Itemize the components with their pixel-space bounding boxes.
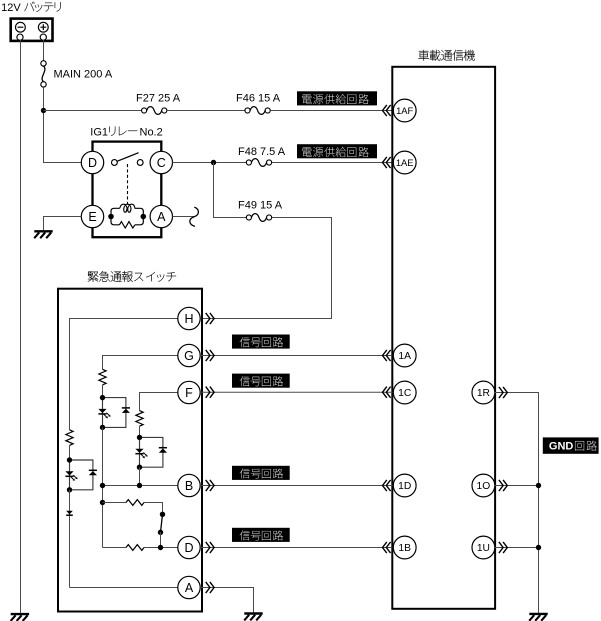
label signal circuit F-1C — [232, 374, 290, 388]
node ground bus / 1U — [536, 545, 541, 550]
wire resistor to LED block (F branch) — [139, 426, 141, 437]
fuse F27 25 A — [142, 107, 167, 115]
connector chevrons into 1AE — [383, 157, 391, 168]
wire G to 1A — [200, 355, 392, 357]
node switch bottom contact — [158, 530, 163, 535]
chevrons out of H row — [206, 313, 214, 324]
wire F46 to connector 1AF — [271, 110, 393, 112]
wire B row inside — [103, 485, 178, 487]
svg-text:GND: GND — [549, 441, 574, 453]
connector chevrons into 1AF — [383, 105, 391, 116]
switch terminal A — [178, 576, 200, 598]
wire G row inside — [103, 356, 178, 370]
svg-text:1C: 1C — [398, 388, 412, 399]
wire 1R to ground bus — [495, 393, 539, 613]
relay pin C — [150, 151, 172, 173]
wire H row inside — [70, 319, 178, 430]
svg-text:E: E — [88, 210, 96, 224]
svg-text:1U: 1U — [477, 543, 490, 554]
wire F branch to B row — [139, 467, 141, 485]
label emergency call switch — [88, 271, 176, 282]
resistor D loop bottom — [126, 545, 144, 551]
wire junction down to F49 — [214, 163, 247, 218]
wire D row bottom path — [103, 547, 178, 549]
label on-board communication device — [418, 50, 474, 61]
wire A to ground — [200, 588, 253, 613]
svg-text:1AE: 1AE — [396, 157, 414, 168]
wire relay C to junction and F48 — [173, 162, 247, 164]
node coil right — [141, 214, 147, 220]
label power supply circuit (second) — [297, 144, 377, 158]
relay switch blade — [117, 153, 138, 162]
wire battery positive to MAIN fusible link — [43, 40, 45, 61]
wire F48 to connector 1AE — [272, 162, 393, 164]
svg-text:G: G — [184, 349, 194, 363]
svg-text:IG1: IG1 — [90, 126, 108, 138]
node B/F junction — [137, 483, 142, 488]
wire B to 1D — [200, 485, 392, 487]
connector pin 1D — [393, 474, 416, 497]
svg-text:F27 25 A: F27 25 A — [136, 93, 181, 105]
connector pin 1B — [393, 536, 416, 559]
fuse F48 7.5 A — [246, 159, 271, 167]
svg-text:1A: 1A — [398, 351, 411, 362]
svg-text:H: H — [184, 312, 193, 326]
svg-text:A: A — [157, 210, 166, 224]
chevrons into 1D — [383, 480, 391, 491]
chevrons out of D — [206, 542, 214, 553]
relay pin E — [81, 205, 103, 227]
svg-text:12V: 12V — [1, 2, 21, 14]
wire 1U to ground bus — [495, 547, 539, 549]
relay box IG1 No.2 — [93, 142, 162, 238]
svg-text:1AF: 1AF — [396, 105, 413, 116]
wire break continuation mark — [190, 207, 199, 226]
chevrons into 1A — [383, 350, 391, 361]
svg-text:1O: 1O — [477, 481, 491, 492]
chevrons out of 1O — [499, 480, 507, 491]
wire relay A stub — [173, 216, 194, 218]
wire junction to fuse F27 — [44, 110, 142, 112]
svg-text:1D: 1D — [398, 481, 411, 492]
connector pin 1R — [472, 381, 495, 404]
svg-text:F: F — [185, 386, 193, 400]
relay pin D — [81, 151, 103, 173]
relay coil block outline — [111, 208, 143, 225]
switch terminal D — [178, 536, 200, 558]
wire D loop top path — [103, 503, 163, 515]
resistor D loop top — [126, 500, 144, 506]
node switch top contact — [160, 512, 165, 517]
chevrons into 1B — [383, 542, 391, 553]
svg-text:No.2: No.2 — [140, 126, 163, 138]
svg-text:C: C — [157, 156, 166, 170]
svg-text:F46 15 A: F46 15 A — [236, 93, 281, 105]
switch terminal B — [178, 474, 200, 496]
ground device — [529, 614, 548, 621]
on-board communication device box U1 — [392, 67, 495, 609]
svg-text:D: D — [88, 156, 97, 170]
switch blade (emergency button) — [161, 514, 163, 532]
switch terminal H — [178, 307, 200, 329]
svg-text:1B: 1B — [398, 543, 411, 554]
ground relay E — [34, 231, 53, 238]
chevrons into 1C — [383, 387, 391, 398]
wire F row inside — [140, 393, 178, 411]
fusible link MAIN 200 A — [41, 61, 46, 87]
battery BATT 12V — [11, 19, 53, 41]
wire G branch down to B row and D loop — [102, 427, 104, 547]
label signal circuit D-1B — [232, 528, 290, 542]
label GND circuit — [543, 437, 599, 453]
relay contact fixed circles — [112, 160, 118, 166]
relay coil resistor — [119, 222, 135, 228]
wire resistor to LED block (H branch) — [69, 445, 71, 460]
resistor F branch — [136, 411, 143, 427]
chevrons out of 1U — [499, 542, 507, 553]
emergency call switch box S1 — [58, 289, 202, 612]
fuse F46 15 A — [245, 107, 270, 115]
label signal circuit B-1D — [232, 466, 290, 480]
svg-text:MAIN 200 A: MAIN 200 A — [54, 69, 113, 81]
switch terminal F — [178, 381, 200, 403]
chevrons out of 1R — [499, 387, 507, 398]
node D loop top — [100, 500, 105, 505]
LED with reverse diode block (G branch) — [98, 395, 130, 430]
LED with reverse diode block (H branch) — [65, 457, 97, 492]
wire MAIN link to junction and relay D — [44, 87, 82, 162]
chevrons out of F — [206, 387, 214, 398]
chevrons out of B — [206, 480, 214, 491]
wire switch to D row — [160, 532, 162, 547]
connector pin 1AF — [393, 99, 416, 122]
connector pin 1AE — [393, 151, 416, 174]
wire battery negative to ground — [20, 40, 22, 613]
wire resistor to LED block (G branch) — [102, 385, 104, 398]
svg-text:A: A — [185, 581, 194, 595]
wire F49 to switch H — [202, 218, 332, 319]
switch terminal G — [178, 344, 200, 366]
chevrons out of G — [206, 350, 214, 361]
relay coil inductor — [120, 204, 135, 212]
connector pin 1A — [393, 344, 416, 367]
node B/G junction — [100, 483, 105, 488]
node D row junction — [158, 545, 163, 550]
wire F27 to F46 — [167, 110, 245, 112]
wire 1O to ground bus — [495, 485, 539, 487]
svg-text:D: D — [184, 541, 193, 555]
relay pin A — [150, 205, 172, 227]
node C branch — [211, 160, 216, 165]
relay actuation dashed link — [127, 164, 129, 204]
LED with reverse diode block (F branch) — [135, 435, 167, 470]
wire F to 1C — [200, 391, 392, 393]
wire A row inside — [70, 587, 178, 589]
ground switch A — [244, 614, 263, 621]
node junction battery feed — [41, 108, 46, 113]
diode series (H branch) — [66, 511, 73, 516]
wire relay E to ground — [44, 217, 82, 231]
wire D to 1B — [200, 547, 392, 549]
connector pin 1U — [472, 536, 495, 559]
chevrons out of A — [206, 582, 214, 593]
svg-text:F48 7.5 A: F48 7.5 A — [238, 146, 286, 158]
node coil left — [108, 214, 114, 220]
ground battery — [11, 614, 30, 621]
svg-text:F49 15 A: F49 15 A — [238, 200, 283, 212]
node ground bus / 1O — [536, 483, 541, 488]
label signal circuit G-1A — [232, 335, 290, 349]
resistor G branch — [99, 369, 106, 385]
connector pin 1C — [393, 381, 416, 404]
fuse F49 15 A — [246, 214, 271, 222]
label power supply circuit (top) — [297, 91, 377, 105]
wire to series diode (H branch) — [69, 490, 71, 588]
svg-text:1R: 1R — [477, 388, 490, 399]
resistor H branch — [66, 430, 73, 446]
svg-text:B: B — [185, 479, 193, 493]
connector pin 1O — [472, 474, 495, 497]
